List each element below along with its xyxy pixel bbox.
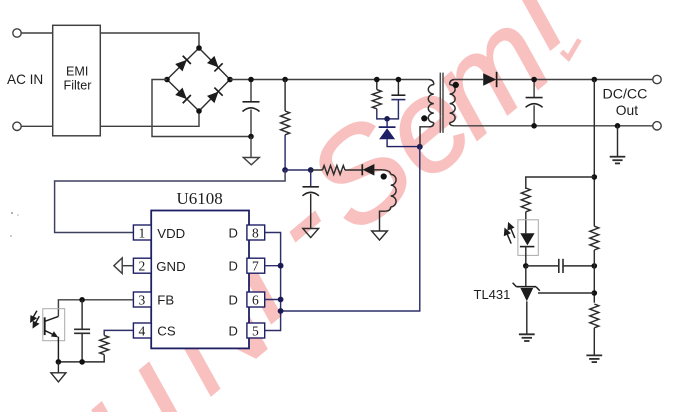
- bridge diode D4 (bottom-right edge): [207, 88, 223, 104]
- wire VDD cap node to aux resistor: [311, 169, 323, 171]
- watermark: [58, 0, 591, 412]
- svg-text:D: D: [229, 293, 238, 308]
- svg-text:AC IN: AC IN: [7, 72, 43, 87]
- ground (bulk cap): [243, 137, 259, 165]
- svg-text:DC/CC: DC/CC: [603, 87, 648, 103]
- node LED cathode / comp node: [523, 263, 529, 269]
- svg-text:8: 8: [252, 226, 259, 241]
- node C1 bottom: [248, 134, 254, 140]
- snubber capacitor C2: [387, 80, 405, 119]
- bridge diode D2 (top-right edge): [207, 55, 223, 71]
- svg-text:VDD: VDD: [157, 226, 185, 241]
- bulk capacitor C1: [243, 80, 260, 137]
- node sense tap top: [592, 77, 598, 83]
- transformer T1 primary winding: [420, 80, 434, 147]
- wire R4 to nodes: [593, 250, 595, 303]
- IC U6108 body: [151, 211, 249, 349]
- svg-text:2: 2: [139, 259, 146, 274]
- CS wire from pin4: [104, 330, 133, 335]
- svg-text:5: 5: [252, 324, 259, 339]
- snubber resistor R2: [372, 80, 387, 119]
- clamp diode D5 (navy, cathode up): [379, 119, 420, 147]
- ground (VDD cap): [303, 229, 319, 238]
- node B+ at C1: [248, 77, 254, 83]
- transformer phase dot primary: [421, 115, 427, 121]
- node bottom at emitter: [56, 359, 62, 365]
- wire VDD node to VDD cap node: [285, 169, 311, 171]
- bridge diode D1 (left-top edge): [175, 56, 191, 72]
- node divider top: [592, 174, 598, 180]
- svg-text:D: D: [229, 324, 238, 339]
- pin 4 box: [133, 323, 151, 339]
- drain bus wires (pins 5-8): [265, 147, 420, 331]
- opto LED box: [518, 220, 538, 256]
- output terminal +: [653, 75, 661, 83]
- svg-text:U6108: U6108: [177, 189, 223, 208]
- svg-text:D: D: [229, 259, 238, 274]
- node bridge right: [227, 77, 233, 83]
- LED emission arrows: [505, 223, 515, 243]
- FB wire to opto: [58, 300, 133, 317]
- stray speck 3: [10, 235, 12, 237]
- node FB at comp cap: [79, 297, 85, 303]
- CS resistor R7: [58, 335, 108, 362]
- node bridge left: [164, 77, 170, 83]
- earth ground (output): [610, 126, 626, 164]
- earth ground (TL431): [519, 334, 535, 341]
- svg-text:1: 1: [139, 226, 146, 241]
- wire B+ rail (bridge right vertex to transformer primary): [230, 79, 429, 81]
- AC input terminal bottom: [13, 122, 21, 130]
- svg-text:7: 7: [252, 259, 259, 274]
- EMI filter block: [53, 25, 101, 136]
- wire terminal top to EMI filter: [21, 32, 53, 34]
- opto phototransistor Q1: [45, 316, 59, 362]
- aux winding phase dot: [381, 173, 387, 179]
- node VDD cap: [308, 167, 314, 173]
- node B+ at snubber R: [374, 77, 380, 83]
- pin 6 box: [247, 292, 265, 308]
- opto LED: [520, 233, 535, 266]
- stray speck 2: [17, 214, 19, 216]
- node B+ at startup resistor: [282, 77, 288, 83]
- svg-text:3: 3: [139, 293, 146, 308]
- svg-text:CS: CS: [157, 324, 176, 339]
- divider lower resistor R5: [590, 304, 599, 328]
- wire TL431 ref to divider: [538, 292, 594, 294]
- node B+ at snubber C: [396, 77, 402, 83]
- node snubber junction: [384, 116, 390, 122]
- node bridge bottom: [196, 108, 202, 114]
- svg-text:EMI: EMI: [66, 65, 88, 79]
- wire R5 to ground: [593, 328, 595, 356]
- ground (aux winding): [372, 231, 388, 240]
- comp capacitor C4: [526, 259, 595, 273]
- wire sense rail down: [593, 80, 595, 227]
- wire aux resistor to aux diode: [345, 169, 362, 171]
- opto light arrows: [31, 311, 39, 328]
- svg-text:Filter: Filter: [64, 79, 92, 93]
- opto transistor box: [43, 309, 65, 341]
- pin 3 box: [133, 292, 151, 308]
- wire EMI filter bottom to bridge bottom node: [100, 111, 199, 126]
- node drain net at clamp: [417, 144, 423, 150]
- transformer T1 secondary winding: [450, 80, 456, 126]
- pin 8 box: [247, 225, 265, 241]
- pin 5 box: [247, 323, 265, 339]
- node drain branch: [278, 308, 284, 314]
- pin 1 box: [133, 225, 151, 241]
- pin 7 box: [247, 258, 265, 274]
- svg-text:4: 4: [139, 324, 146, 339]
- aux diode D7 (cathode left): [362, 164, 380, 176]
- output diode D6: [483, 72, 496, 87]
- wire R3 to LED: [525, 212, 527, 234]
- svg-text:GND: GND: [156, 259, 185, 274]
- node drain pin7: [278, 263, 284, 269]
- ground (opto): [51, 362, 66, 382]
- pin 2 box: [133, 258, 151, 274]
- svg-text:TL431: TL431: [474, 287, 511, 302]
- node VDD: [282, 167, 288, 173]
- GND pin arrow: [114, 258, 133, 274]
- earth ground (divider): [586, 355, 602, 362]
- startup resistor R1: [281, 80, 290, 171]
- wire divider top to LED branch: [526, 177, 595, 189]
- wire EMI filter top to bridge top node: [100, 33, 199, 48]
- node C3 top: [531, 77, 537, 83]
- stray speck 1: [11, 212, 13, 214]
- aux winding L1: [380, 170, 397, 231]
- wire VDD routing to pin1: [55, 170, 286, 233]
- transformer phase dot secondary: [453, 82, 459, 88]
- wire secondary top to output diode: [454, 79, 483, 81]
- VDD capacitor C5: [303, 170, 319, 229]
- svg-text:FB: FB: [157, 293, 174, 308]
- node C3 bottom: [531, 123, 537, 129]
- output capacitor C3: [526, 80, 543, 126]
- TL431 U2: [513, 266, 540, 334]
- node comp at divider: [592, 263, 598, 269]
- wire output diode to + terminal: [497, 79, 653, 81]
- node bottom at cap: [79, 359, 85, 365]
- wire bridge left vertex to primary ground rail: [152, 80, 251, 137]
- bridge rectifier BR1: [167, 48, 230, 111]
- node drain pin6: [278, 297, 284, 303]
- output terminal -: [653, 122, 661, 130]
- aux resistor R6: [323, 166, 345, 175]
- svg-text:D: D: [229, 226, 238, 241]
- node output ground: [615, 123, 621, 129]
- bridge diode D3 (left-bottom edge): [175, 87, 191, 103]
- divider upper resistor R4: [590, 226, 599, 250]
- node bridge top: [196, 45, 202, 51]
- svg-text:6: 6: [252, 293, 259, 308]
- comp capacitor C6: [74, 300, 90, 362]
- wire secondary bottom rail: [454, 125, 652, 127]
- wire terminal bottom to EMI filter: [21, 125, 53, 127]
- AC input terminal top: [13, 29, 21, 37]
- node ref at divider: [592, 290, 598, 296]
- svg-text:Out: Out: [616, 103, 638, 118]
- transformer core: [440, 73, 443, 133]
- resistor R3 (LED series): [521, 188, 530, 212]
